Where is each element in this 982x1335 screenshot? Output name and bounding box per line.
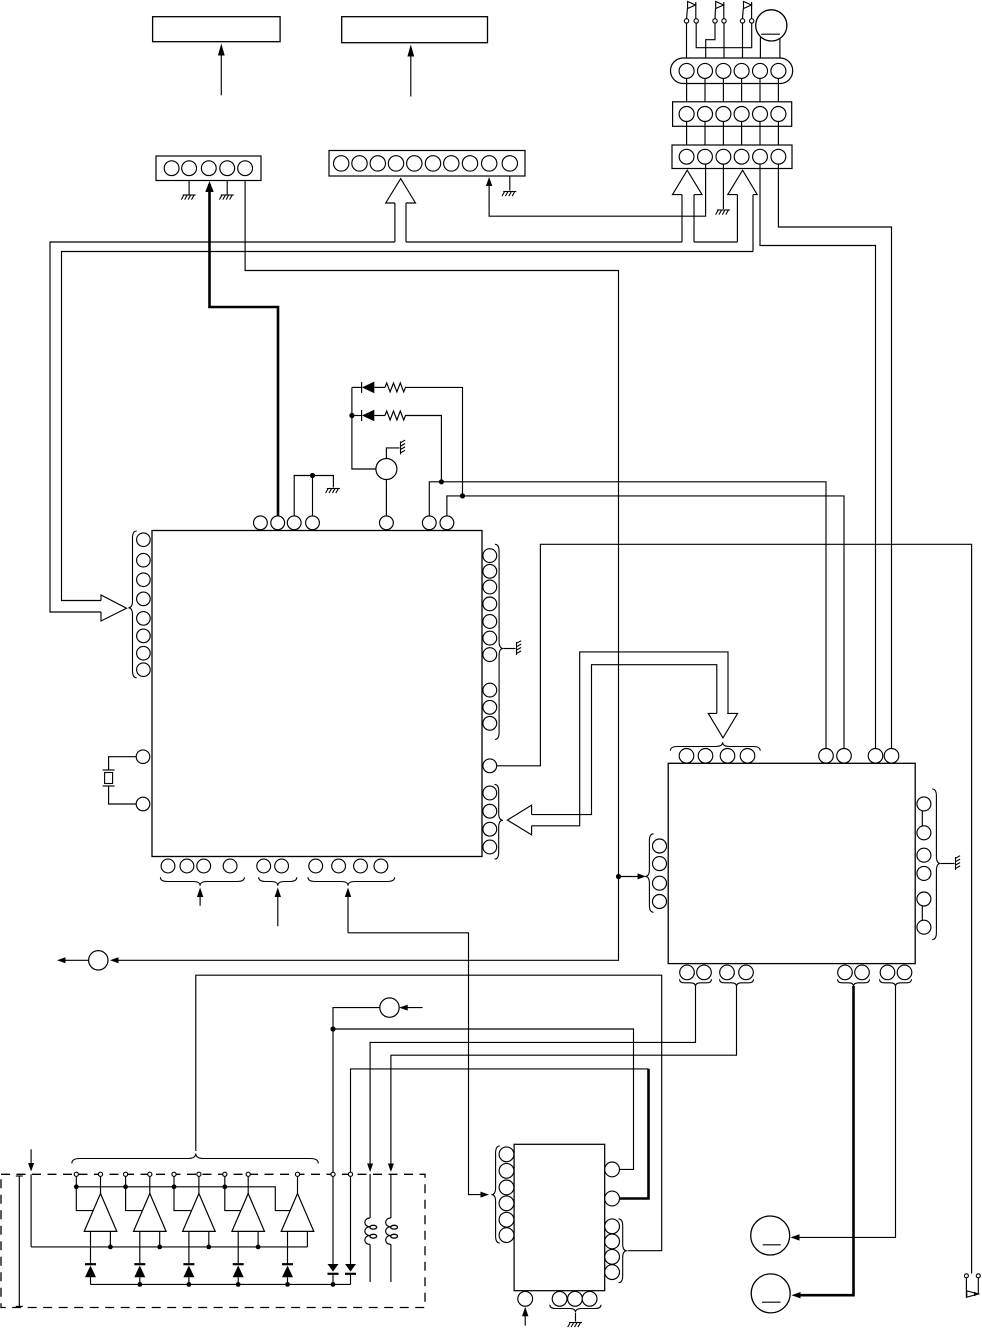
plug P1 — [89, 951, 108, 970]
connector CN3 — [672, 145, 792, 169]
bus arrow into U1 left pins — [101, 595, 127, 621]
wire A3 apex pin — [198, 1176, 200, 1193]
brace U2 bottom pair4 — [880, 979, 912, 986]
wire S1L to CN4 — [686, 23, 688, 63]
pins U3 left — [499, 1147, 514, 1162]
wire S3L to CN4 — [742, 23, 744, 63]
junction node on CN1 pin5 net — [616, 874, 621, 879]
crystal X1 pins — [136, 750, 150, 764]
pins U3 right group — [605, 1219, 620, 1234]
wire A1 legs — [90, 1231, 92, 1263]
inductor coil — [369, 1174, 371, 1218]
wire net to driver box diode — [351, 1069, 649, 1174]
op-amp A2 — [134, 1194, 167, 1232]
bus arrow into CN3 pin1 — [681, 195, 683, 242]
wire U3 right brace to driver brace net — [196, 975, 662, 1250]
pins U3 right singles — [605, 1162, 620, 1177]
pins CN1 1-5 — [164, 161, 179, 176]
wire arrow into B1 — [220, 50, 222, 95]
ground sideways — [517, 641, 522, 655]
wire TP1 to U1 top pin — [385, 480, 387, 517]
wire output rail — [31, 1246, 307, 1248]
wire branch arrow to U2 left brace — [619, 876, 642, 878]
wire U2 pair2 to coil L2 — [391, 986, 737, 1167]
wire link U2 right pins 1-2 — [921, 811, 923, 826]
pins CN5 1-6 — [679, 107, 694, 122]
wire box supply rail drop — [30, 1174, 32, 1247]
junction node output rail — [206, 1245, 211, 1250]
ground — [326, 489, 340, 494]
bus arrow down into U2 top brace — [708, 713, 737, 738]
pins driver box top — [74, 1172, 78, 1176]
lamp DS1 — [756, 10, 787, 41]
diode D9 (inverted) — [350, 1176, 352, 1264]
diode D8 (inverted) — [332, 1176, 334, 1264]
wire S2L step to CN4 — [706, 23, 715, 63]
wire brace to ground — [575, 1313, 577, 1322]
IC U2 body — [668, 763, 915, 963]
wire CN3 pin6 to U2 — [778, 164, 891, 749]
wire lamp legs — [759, 37, 761, 58]
wire A5 apex pin — [297, 1176, 299, 1193]
junction node diode rail — [285, 1282, 290, 1287]
wire U1 top pin3 to ground net — [294, 476, 312, 517]
wire arrow out of P1 — [62, 959, 89, 961]
motor M2 — [751, 1274, 790, 1313]
pins U1 top — [254, 516, 268, 530]
box B2 — [342, 17, 488, 43]
flag switch S3 — [751, 2, 753, 19]
junction node diode rail — [236, 1282, 241, 1287]
wire diode common rail — [91, 1283, 351, 1285]
wire brace to ground — [504, 648, 516, 650]
brace U3 right group — [619, 1219, 627, 1283]
wire CN1 pin5 long net — [112, 181, 619, 961]
pins U3 bottom — [518, 1291, 533, 1306]
wire S1R / S3R common — [696, 23, 752, 48]
connector CN5 — [673, 102, 792, 127]
ground — [568, 1323, 582, 1328]
wire R1 to U1/U2 net — [406, 387, 463, 496]
resistor R1 — [385, 383, 406, 392]
junction node input rail — [74, 1184, 79, 1189]
op-amp A1 — [84, 1194, 117, 1232]
ground at CN3 pin3 — [722, 164, 724, 209]
wire input steps — [126, 1176, 143, 1210]
switch S4 — [964, 1274, 968, 1278]
pins U2 bottom — [680, 965, 695, 980]
pins U2 right — [917, 797, 931, 811]
junction node output rail — [157, 1245, 162, 1250]
wire U1 pin to U2 pin net B — [447, 496, 844, 749]
bus arrow into U1 right lower brace — [507, 805, 531, 835]
over-brace driver inputs — [72, 1154, 318, 1164]
brace U1 left pin group — [128, 531, 136, 678]
junction node input rail — [222, 1184, 227, 1189]
wire arrow into box — [30, 1149, 32, 1166]
diode D5 — [183, 1263, 194, 1265]
flag switch S2 — [723, 2, 725, 19]
wire U1 pin to U2 pin net A — [429, 482, 826, 749]
inductor coil — [390, 1174, 392, 1218]
pins U1 right lower group — [483, 786, 497, 800]
wire ground stub — [313, 476, 334, 488]
wires CN4 to CN5 — [686, 78, 688, 106]
pins U1 right upper group — [483, 549, 497, 563]
wire net to U3 pin1 — [333, 1029, 634, 1169]
IC U3 body — [514, 1144, 605, 1290]
pins CN2 1-10 — [334, 156, 349, 171]
wire thick U2 pair3 to motor M2 — [800, 986, 854, 1295]
junction node diode rail — [137, 1282, 142, 1287]
driver box (dashed) — [1, 1174, 425, 1307]
wire P2 to driver box net — [333, 1008, 380, 1174]
resistor R2 — [385, 411, 406, 420]
wires CN5 to CN3 — [686, 122, 688, 150]
wire CN3 pin5 to U2 — [760, 164, 876, 749]
ground at CN2 pin10 — [509, 176, 511, 191]
brace U2 top group1 — [670, 742, 760, 750]
connector bar inside box — [18, 1176, 20, 1306]
wire diode row vertical — [352, 387, 376, 469]
wire arrow into P2 — [403, 1007, 423, 1009]
diode D6 — [233, 1263, 244, 1265]
brace U3 bottom group — [550, 1305, 601, 1313]
ground at CN1 pin2 — [188, 181, 190, 195]
ground at CN1 pin4 — [226, 181, 228, 195]
junction node input rail — [123, 1184, 128, 1189]
pins CN3 1-6 — [679, 149, 694, 164]
wire A2 apex pin — [149, 1176, 151, 1193]
wire U2 pair4 to motor M1 — [798, 986, 896, 1237]
brace U2 right group — [932, 789, 940, 940]
wire arrow into U1 bottom group1 — [199, 892, 201, 906]
bus arrow into CN3 pin4 — [736, 195, 738, 242]
wire A4 legs — [237, 1231, 239, 1263]
wire A1 apex pin — [100, 1176, 102, 1193]
op-amp A4 — [232, 1194, 265, 1232]
junction node output rail — [108, 1245, 113, 1250]
junction node diode rows — [349, 413, 354, 418]
flag switch S1 — [695, 2, 697, 19]
junction node input rail — [172, 1184, 177, 1189]
op-amp A3 — [183, 1194, 216, 1232]
ground at TP1 — [401, 440, 406, 454]
wire S2R to CN4 — [723, 23, 725, 63]
brace U1 bottom group2 — [259, 877, 297, 885]
pins U2 top — [679, 749, 694, 764]
wire input rail — [75, 1176, 77, 1186]
ground sideways — [956, 856, 961, 870]
box B1 — [153, 17, 281, 42]
wire link U2 right pins 5-6 — [921, 906, 923, 920]
bus pipe left: outline — [50, 242, 395, 612]
brace U2 bottom pair2 — [720, 979, 754, 986]
wire U1 pin to S4 switch net — [497, 544, 972, 1273]
pins U1 bottom — [161, 859, 175, 873]
crystal X1 — [109, 757, 137, 770]
connector CN1 — [156, 156, 261, 181]
pins CN4 1-6 — [679, 63, 694, 78]
brace U1 bottom group3 — [308, 877, 395, 885]
wire CN3 pin2 to CN2 pin9 — [489, 164, 705, 216]
wire TP1 to ground — [386, 448, 399, 459]
wire arrow into B2 — [410, 51, 412, 97]
bus hose U2-U1: outline — [532, 652, 728, 826]
brace U1 right upper group — [495, 544, 503, 739]
brace U1 bottom group1 — [160, 877, 244, 885]
brace U3 left group — [491, 1146, 499, 1243]
connector CN2 — [329, 151, 525, 177]
wire R2 to net — [406, 416, 442, 482]
connector CN4 (stadium) — [671, 58, 793, 84]
pins U2 left — [653, 839, 667, 853]
wire arrow into U3 bottom pin1 — [524, 1311, 526, 1326]
pins U1 left — [137, 533, 151, 547]
wire A3 legs — [188, 1231, 190, 1263]
bus arrow into CN2 — [394, 203, 396, 242]
brace U2 bottom pair3 — [838, 979, 870, 986]
wire brace to ground — [941, 863, 955, 865]
wire arrow into U1 bottom group2 — [277, 892, 279, 926]
diode D2 — [352, 415, 362, 417]
diode D3 — [85, 1263, 96, 1265]
wire bus pipe segment between arrows — [694, 241, 737, 243]
wire thick U3 pin2 net — [620, 1069, 649, 1199]
diode D7 — [282, 1263, 293, 1265]
wire U1 top pin4 to ground net — [312, 476, 314, 517]
brace U1 right lower group — [495, 784, 503, 859]
junction node output rail — [256, 1245, 261, 1250]
wire thick CN1 pin3 to U1 (signal) — [210, 184, 279, 516]
test point TP1 — [376, 459, 397, 480]
diode D1 — [352, 386, 362, 388]
diode D4 — [134, 1263, 145, 1265]
wire A5 legs — [287, 1231, 289, 1263]
wire A2 legs — [139, 1231, 141, 1263]
junction node diode rail — [187, 1282, 192, 1287]
wire A4 apex pin — [247, 1176, 249, 1193]
brace U2 left group — [645, 834, 653, 913]
op-amp A5 — [281, 1194, 314, 1232]
pin U1 right single — [483, 759, 497, 773]
junction node diode rail — [331, 1282, 336, 1287]
wire bus pipe top segment — [406, 241, 682, 243]
plug P2 — [380, 998, 399, 1017]
brace U2 bottom pair1 — [680, 979, 712, 986]
IC U1 body — [152, 531, 482, 857]
wire U2 pair1 to coil L1 — [370, 986, 695, 1167]
motor M1 — [751, 1216, 790, 1255]
wire arrow into U1 bottom group3 from U3 net — [347, 892, 349, 933]
